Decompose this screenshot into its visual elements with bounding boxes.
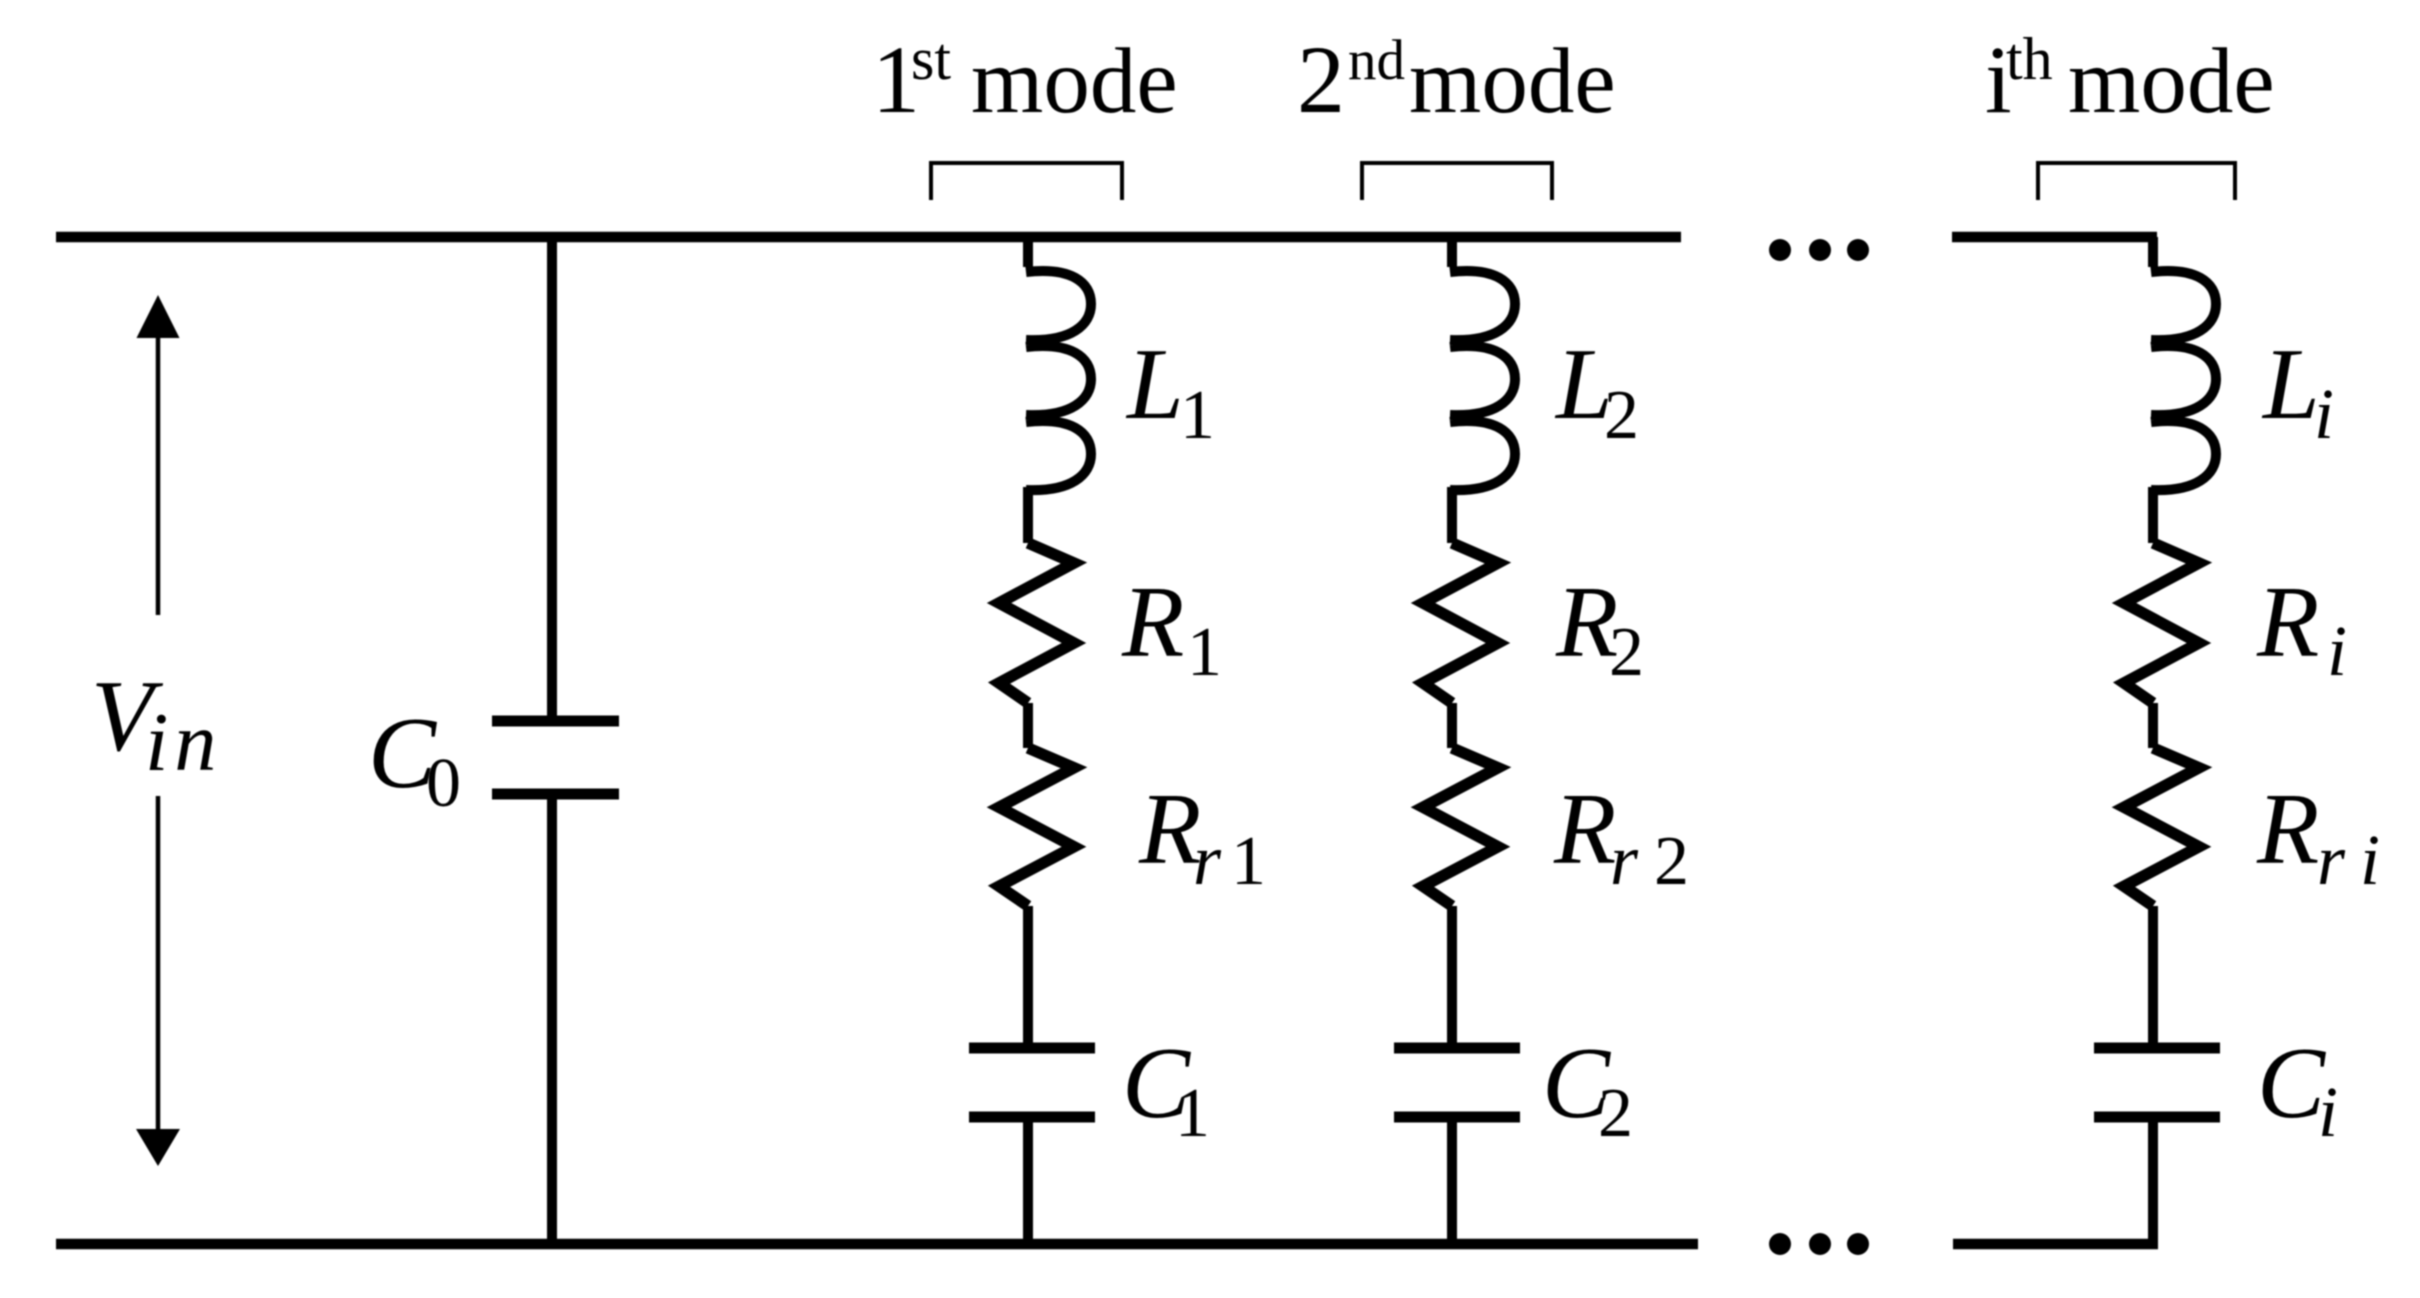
capacitor C2 (1394, 1043, 1520, 1054)
svg-text:R: R (1553, 773, 1616, 886)
svg-text:i: i (2360, 820, 2380, 900)
svg-text:1: 1 (1175, 1075, 1210, 1152)
svg-text:L: L (2261, 328, 2320, 441)
wire Ri-Rri (2148, 703, 2158, 748)
wire R1-Rr1 (1023, 703, 1033, 748)
svg-text:2: 2 (1598, 1075, 1633, 1152)
inductor L1 (1026, 271, 1091, 490)
wire Li-Ri (2148, 487, 2158, 543)
svg-text:2: 2 (1297, 26, 1345, 133)
resistor R1 (999, 543, 1074, 703)
wire R2-Rr2 (1447, 703, 1457, 748)
wire Ci-bottom (2148, 1117, 2158, 1249)
node dots top ellipsis (1769, 239, 1869, 261)
resistor Rr2 (1423, 748, 1498, 906)
svg-text:1: 1 (1231, 823, 1266, 900)
wire Rri-Ci (2148, 906, 2158, 1048)
svg-text:R: R (2256, 773, 2319, 886)
svg-text:1: 1 (1180, 377, 1215, 454)
bracket ith mode (2038, 163, 2235, 200)
svg-text:1: 1 (1187, 614, 1222, 691)
svg-text:i: i (2318, 1072, 2338, 1152)
wire branch2 top (1447, 237, 1457, 267)
wire C0 branch top (547, 232, 557, 716)
capacitor C1 (969, 1043, 1095, 1054)
resistor Rri (2124, 748, 2199, 906)
svg-text:r: r (2317, 820, 2346, 900)
wire branch1 top (1023, 237, 1033, 267)
svg-text:2: 2 (1654, 823, 1689, 900)
svg-text:mode: mode (1409, 30, 1616, 133)
svg-text:mode: mode (2068, 30, 2275, 133)
svg-text:r: r (1610, 820, 1639, 900)
wire top rail (56, 232, 1681, 243)
wire Rr1-C1 (1023, 906, 1033, 1048)
resistor R2 (1423, 543, 1498, 703)
bracket 1st mode (931, 163, 1122, 200)
svg-text:r: r (1193, 820, 1222, 900)
svg-text:R: R (2256, 566, 2319, 679)
svg-text:0: 0 (426, 745, 461, 822)
svg-text:st: st (911, 26, 951, 92)
inductor Li (2151, 271, 2216, 490)
branch 2 (1394, 237, 1520, 1249)
wire top rail right segment (1952, 232, 2157, 243)
svg-text:i: i (2327, 611, 2347, 691)
svg-text:2: 2 (1604, 377, 1639, 454)
svg-text:nd: nd (1348, 29, 1405, 92)
wire C1-bottom (1023, 1117, 1033, 1249)
wire L1-R1 (1023, 487, 1033, 543)
wire branch-i top (2148, 237, 2158, 267)
inductor L2 (1450, 271, 1515, 490)
resistor Rr1 (999, 748, 1074, 906)
wire Rr2-C2 (1447, 906, 1457, 1048)
svg-text:mode: mode (971, 30, 1178, 133)
arrow Vin down (136, 796, 180, 1166)
svg-text:2: 2 (1609, 614, 1644, 691)
node dots bottom ellipsis (1769, 1233, 1869, 1255)
svg-text:i: i (2314, 374, 2334, 454)
wire C0 branch bottom (547, 799, 557, 1249)
branch 1 (969, 237, 1095, 1249)
capacitor C0 (492, 721, 619, 794)
branch i (2094, 237, 2220, 1249)
svg-text:L: L (1125, 328, 1184, 441)
wire L2-R2 (1447, 487, 1457, 543)
wire bottom rail right segment (1953, 1239, 2158, 1250)
svg-text:R: R (1138, 773, 1201, 886)
svg-text:R: R (1121, 566, 1184, 679)
svg-text:in: in (145, 696, 222, 789)
wire C2-bottom (1447, 1117, 1457, 1249)
svg-text:C: C (2257, 1027, 2326, 1140)
svg-text:th: th (2006, 26, 2053, 92)
capacitor Ci (2094, 1043, 2220, 1054)
resistor Ri (2124, 543, 2199, 703)
wire bottom rail (56, 1239, 1698, 1250)
bracket 2nd mode (1362, 163, 1552, 200)
arrow Vin up (137, 295, 180, 615)
